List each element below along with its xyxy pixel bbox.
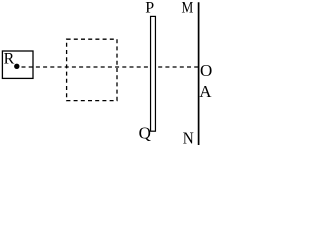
svg-text:Q: Q: [139, 123, 151, 142]
dashed region box: [67, 39, 117, 100]
source box R: [2, 51, 33, 78]
screen line MN: [198, 2, 200, 145]
svg-text:A: A: [199, 82, 212, 101]
svg-text:R: R: [4, 51, 15, 68]
slit plate PQ: [151, 16, 156, 131]
svg-text:O: O: [200, 61, 212, 80]
svg-text:M: M: [182, 0, 194, 17]
optical axis dashed line (right of plate): [158, 66, 198, 68]
svg-text:P: P: [145, 0, 154, 17]
svg-text:N: N: [183, 129, 194, 145]
point source dot: [14, 64, 19, 69]
optical axis dashed line (left of plate): [22, 66, 149, 68]
